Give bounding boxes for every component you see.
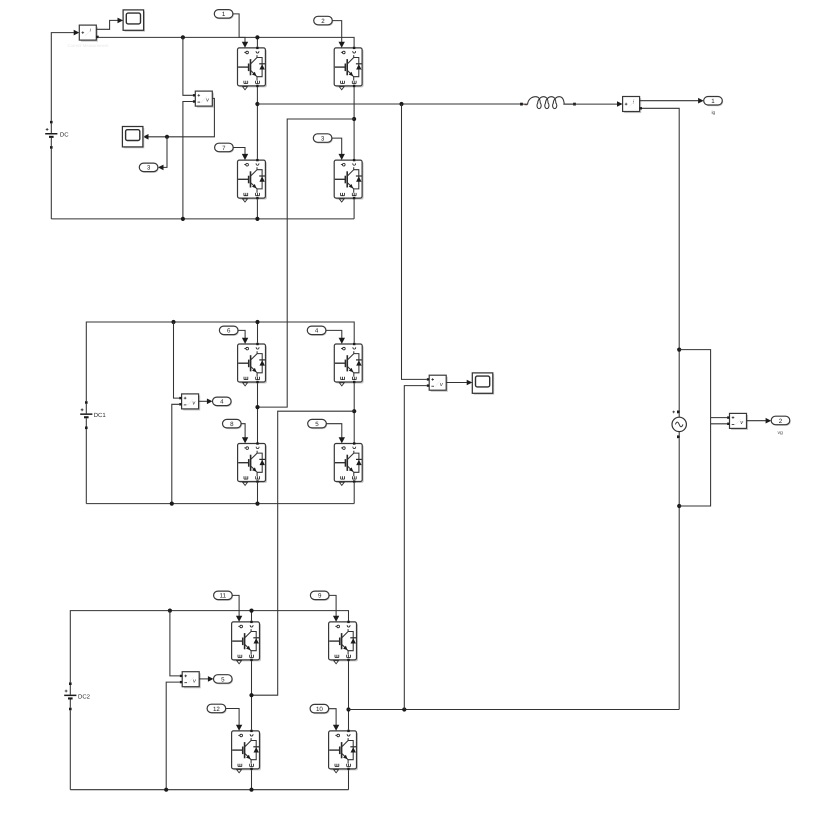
voltage measurement V1 [193,91,214,108]
wire port6 to gate Q5 [238,330,245,338]
voltage measurement V3 [180,672,201,689]
wire i signal to Scope1 [96,18,123,30]
wire Q12 emitter to rail3 [348,770,350,790]
node src-top [677,348,681,352]
transistor Q11 (HB3 bottom-left IGBT) [232,725,261,773]
wire left leg3 [251,661,253,730]
node loadline-vplus [399,102,403,106]
wire Q11 emitter to rail3 [251,770,253,790]
wire Q4 emitter to rail [353,199,355,219]
wire right leg3 [348,661,350,730]
wire TL collector drop3 [251,611,253,621]
wire port11 to gate Q9 [232,595,239,616]
wire battery+ to current meas [51,30,79,121]
inport 12 oval [207,704,227,714]
wire v out to Scope2 [143,98,215,139]
outport 2 oval vg [771,416,791,436]
current measurement block I1 [79,25,98,42]
wire v- branch3 [166,682,180,790]
voltage measurement V2 [179,394,200,411]
transistor Q7 (HB2 bottom-left IGBT) [238,437,267,485]
svg-text:5: 5 [315,421,319,428]
wire battery- down [50,149,52,219]
wire port7 to gate Q3 [233,148,245,155]
inport 11 oval [214,591,234,601]
svg-text:DC: DC [60,132,69,139]
transistor Q1 (HB1 top-left IGBT) [238,42,267,90]
wire load line [257,103,520,105]
scope U2 [122,127,144,149]
transistor Q4 (HB1 bottom-right IGBT) [334,154,363,202]
wire i2 signal to outport 1 [640,98,704,104]
svg-text:10: 10 [316,706,323,713]
wire port8 to gate Q7 [241,424,245,438]
wire v+ branch [183,37,193,95]
node rail-vminus [181,217,185,221]
svg-text:1: 1 [711,98,715,105]
wire battery2- down [69,710,71,789]
transistor Q6 (HB2 top-right IGBT) [334,338,363,386]
wire bottom rail2 [86,503,354,505]
node rail2-Q7E [255,502,259,506]
node HB3 input A [249,693,253,697]
wire grid v loop [679,350,710,506]
svg-text:9: 9 [318,593,322,600]
scope U1 [123,10,145,32]
wire left leg2 [257,383,259,455]
node rail-vplus [181,35,185,39]
svg-text:6: 6 [227,328,231,335]
node src-bottom [677,504,681,508]
svg-text:7: 7 [222,145,226,152]
svg-text:2: 2 [779,418,783,425]
wire Q3 emitter to rail [256,199,258,219]
node HB2 output B [352,409,356,413]
svg-text:11: 11 [220,593,227,600]
wire port2 to gate Q2 [332,21,341,43]
svg-text:12: 12 [213,706,220,713]
wire right leg2 [353,383,355,455]
node rail-Q3E [255,217,259,221]
wire v- branch2 [172,404,179,503]
outport 3 oval [139,163,159,173]
wire left leg [256,87,258,159]
node rail3-TLC [249,609,253,613]
outport 1 oval ig [704,97,724,117]
transistor Q2 (HB1 top-right IGBT) [334,42,363,90]
node HB1 output A [255,102,259,106]
transistor Q12 (HB3 bottom-right IGBT) [329,725,358,773]
transistor Q3 (HB1 bottom-left IGBT) [238,154,267,202]
wire load v+ branch [402,104,427,379]
inport 9 oval [310,591,330,601]
wire port12 to gate Q11 [226,709,239,726]
inport 3 oval (gate) [313,134,333,144]
wire port4 to gate Q6 [326,330,342,338]
wire grid return down [642,108,679,410]
transistor Q5 (HB2 top-left IGBT) [238,338,267,386]
node HB1 output B [352,117,356,121]
wire v- branch to bottom rail [183,102,193,219]
node rail2-vminus [170,502,174,506]
wire bottom rail [51,218,354,220]
voltage measurement V5 (grid) [727,413,748,430]
wire src bottom down [678,438,680,709]
svg-text:5: 5 [221,676,225,683]
transistor Q10 (HB3 top-right IGBT) [329,616,358,664]
node rail3-Q11E [249,788,253,792]
wire bottom rail3 [70,789,348,791]
battery DC2 [64,682,90,710]
outport 4 oval [213,397,233,407]
wire TL collector drop [256,37,258,46]
wire battery+ up and top rail3 [70,611,348,683]
inport 10 oval [310,704,330,714]
wire load v- branch [404,386,427,710]
svg-text:DC2: DC2 [78,694,91,701]
wire Q7 emitter to rail [257,483,259,504]
wire inductor to grid i meas [563,101,622,107]
node rail-vplus2 [171,320,175,324]
wire cascade HB2-HB3 [252,411,355,695]
node loadvminus-rail [402,707,406,711]
inport 6 oval [219,326,239,336]
wire TL collector drop [257,322,259,343]
node HB2 input A [255,405,259,409]
svg-text:1: 1 [222,11,226,18]
wire v5 out to outport 2 [747,418,772,424]
wire v out to outport 5 [199,676,213,682]
battery DC [45,121,69,149]
node rail3-vplus [168,609,172,613]
svg-text:3: 3 [147,165,151,172]
svg-text:vg: vg [778,430,784,436]
svg-text:ig: ig [711,110,715,116]
svg-text:8: 8 [230,421,234,428]
wire port1 to gate Q1 [233,14,245,43]
node rail-TLC [255,35,259,39]
wire junction to outport 3 [158,137,167,170]
svg-text:Current Measurement: Current Measurement [68,43,110,48]
svg-text:3: 3 [321,135,325,142]
wire v+ branch2 [174,322,180,398]
wire battery1- down [85,429,87,504]
node rail3-vminus [164,788,168,792]
voltage measurement V4 (inverter output) [427,375,448,392]
wire port9 to gate Q10 [329,595,336,616]
inport 7 oval [215,143,235,153]
svg-text:DC1: DC1 [94,412,107,419]
wire battery+ up and top rail [86,322,354,401]
wire Q8 emitter to rail [353,483,355,504]
node vout-junction [165,135,169,139]
scope U3 [472,373,494,395]
inport 1 oval [214,10,234,20]
inductor L1 [520,97,576,109]
wire port10 to gate Q12 [329,709,336,726]
wire v5+ stub [711,417,728,419]
wire right leg [353,87,355,159]
svg-text:4: 4 [315,328,319,335]
wire v out to outport 4 [199,399,213,405]
wire v+ branch3 [170,611,180,676]
current measurement I2 [623,97,642,114]
wire cascade HB1-HB2 [258,119,355,407]
inport 5 oval (gate) [308,419,328,429]
node rail-TLC2 [255,320,259,324]
node HB3 output B [346,707,350,711]
inport 8 oval [223,419,243,429]
battery DC1 [80,401,106,429]
wire v5- stub [711,423,728,425]
inport 4 oval (gate) [307,326,327,336]
svg-text:4: 4 [220,399,224,406]
wire top rail [99,37,354,46]
inport 2 oval [314,16,334,26]
transistor Q9 (HB3 top-left IGBT) [232,616,261,664]
svg-text:2: 2 [321,18,325,25]
wire HB3 output rail right [349,709,680,711]
wire port3 to gate Q4 [332,138,342,155]
AC source Vg [672,411,686,439]
outport 5 oval [214,675,234,685]
wire v4 out to scope [446,380,472,386]
wire port5 to gate Q8 [326,424,342,438]
transistor Q8 (HB2 bottom-right IGBT) [334,437,363,485]
